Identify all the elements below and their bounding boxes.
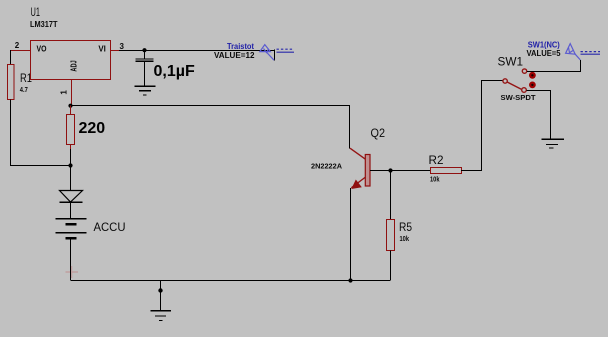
svg-text:LM317T: LM317T [30, 20, 58, 29]
battery origin marker (faint) [66, 266, 79, 278]
svg-text:2N2222A: 2N2222A [311, 164, 342, 171]
svg-text:1: 1 [59, 90, 68, 95]
svg-text:ADJ: ADJ [70, 60, 79, 71]
svg-text:10k: 10k [430, 176, 440, 183]
wire pin3 to terminal [119, 50, 275, 52]
ground under capacitor [135, 86, 156, 95]
wire node to R5 [390, 171, 392, 220]
wire pin2 to R1 [10, 50, 12, 64]
svg-text:U1: U1 [31, 5, 41, 19]
wire battery to bottom rail [70, 239, 72, 280]
terminal SW1(NC) VALUE=5 [527, 40, 601, 60]
svg-text:R5: R5 [399, 220, 412, 234]
svg-text:0,1µF: 0,1µF [154, 63, 195, 80]
diode D1 [60, 191, 83, 203]
wire Q2 base [370, 170, 391, 172]
svg-text:SW1: SW1 [498, 55, 524, 69]
transistor Q2 labels [311, 126, 385, 171]
wire Q2 emitter down [350, 188, 352, 280]
resistor R1 [8, 65, 33, 100]
resistor R5 [387, 220, 413, 251]
svg-text:10k: 10k [400, 236, 410, 243]
transistor Q2 [350, 148, 370, 188]
wire ADJ to Q2 collector [71, 106, 350, 149]
pin 3 [111, 42, 125, 51]
switch SW1 labels [498, 55, 537, 102]
resistor R2 [429, 153, 462, 184]
op-amp U1 body (LM317T regulator box) [31, 41, 111, 80]
node ground junction [158, 288, 162, 292]
svg-text:4.7: 4.7 [20, 87, 28, 94]
wire diode to battery [70, 202, 72, 218]
svg-text:VALUE=5: VALUE=5 [527, 49, 562, 58]
svg-text:Traistot: Traistot [227, 42, 254, 51]
wire SW1 NO contact to ground [526, 91, 550, 140]
svg-text:ACCU: ACCU [94, 220, 126, 234]
node capacitor junction [142, 48, 146, 52]
node base junction [388, 168, 392, 172]
wire R5 to bottom rail [390, 251, 392, 281]
svg-text:VALUE=12: VALUE=12 [214, 51, 255, 60]
svg-text:R2: R2 [429, 153, 444, 167]
wire bottom rail [71, 280, 391, 282]
svg-text:SW-SPDT: SW-SPDT [501, 95, 537, 102]
battery ACCU [56, 219, 126, 238]
svg-text:Q2: Q2 [371, 126, 386, 140]
pin 1 (ADJ) [59, 80, 71, 106]
resistor 220 [67, 106, 106, 151]
terminal Traistot VALUE=12 [214, 42, 294, 60]
switch SW1 SPDT [503, 69, 536, 92]
wire 220 to node [70, 149, 72, 166]
ground bottom center [151, 311, 172, 320]
svg-text:VO: VO [37, 45, 47, 54]
node ADJ junction [68, 104, 72, 108]
capacitor C1 0,1uF [136, 50, 195, 86]
wire R2 to switch pole [461, 81, 503, 171]
ground under switch [542, 139, 565, 148]
pin 2 [10, 41, 31, 50]
svg-text:2: 2 [15, 41, 20, 50]
wire R1 bottom L-shape [11, 100, 71, 166]
svg-text:VI: VI [98, 45, 106, 54]
wire base node to R2 [391, 170, 431, 172]
svg-text:220: 220 [79, 120, 106, 137]
wire node to diode [70, 166, 72, 191]
svg-text:3: 3 [120, 42, 125, 51]
op-amp U1 reference label [30, 5, 58, 29]
svg-text:R1: R1 [20, 71, 32, 85]
wire SW1 NC contact to terminal [527, 60, 581, 72]
node emitter-rail junction [348, 278, 352, 282]
node battery branch junction [68, 163, 72, 167]
wire ground stub [160, 280, 162, 311]
